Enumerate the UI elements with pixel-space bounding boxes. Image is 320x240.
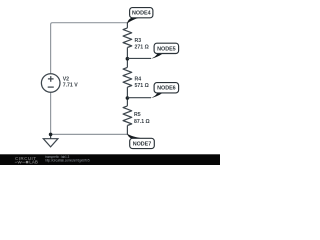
svg-text:NODE5: NODE5 [157,46,176,52]
svg-text:571 Ω: 571 Ω [135,83,149,89]
svg-text:7.71 V: 7.71 V [63,83,79,89]
svg-text:87.1 Ω: 87.1 Ω [134,119,150,125]
svg-text:R4: R4 [135,76,142,82]
svg-text:http://circuitlab.com/c/a/7dgx: http://circuitlab.com/c/a/7dgx67b/5 [45,159,90,163]
svg-text:271 Ω: 271 Ω [135,45,149,51]
svg-text:NODE7: NODE7 [133,141,152,147]
svg-text:R5: R5 [134,112,141,118]
svg-text:NODE4: NODE4 [132,11,151,17]
svg-text:V2: V2 [63,76,69,82]
svg-text:LAB: LAB [29,160,38,165]
svg-text:NODE6: NODE6 [157,86,176,92]
svg-text:R3: R3 [135,38,142,44]
